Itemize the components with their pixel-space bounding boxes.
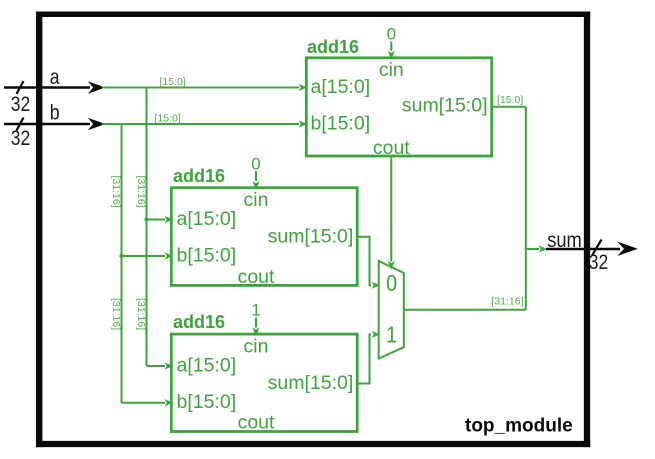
adder U3 add16 (high half, cin=1) box	[171, 334, 357, 431]
svg-text:cin: cin	[244, 335, 269, 357]
wire U3.sum to mux input 1	[357, 331, 380, 384]
svg-text:0: 0	[251, 154, 260, 173]
bus-width slash on a	[17, 81, 24, 94]
svg-text:b[15:0]: b[15:0]	[177, 244, 237, 266]
adder U2 add16 (high half, cin=0) box	[171, 188, 357, 286]
svg-text:[15:0]: [15:0]	[155, 113, 181, 125]
mux M1 body	[379, 261, 404, 359]
svg-text:0: 0	[386, 270, 397, 296]
svg-text:32: 32	[11, 127, 31, 150]
svg-text:cin: cin	[379, 59, 404, 81]
svg-text:[31:16]: [31:16]	[135, 298, 147, 330]
svg-text:32: 32	[11, 93, 31, 116]
svg-text:b[15:0]: b[15:0]	[177, 391, 237, 413]
svg-text:[31:16]: [31:16]	[110, 298, 122, 330]
input port b wire	[4, 118, 105, 131]
svg-text:cout: cout	[373, 137, 410, 159]
wire const 0 to U1.cin	[388, 42, 395, 60]
wire U1.cout to mux select	[388, 156, 395, 270]
svg-text:[15:0]: [15:0]	[497, 94, 523, 106]
svg-text:sum[15:0]: sum[15:0]	[402, 94, 488, 116]
output port sum wire	[546, 242, 638, 256]
svg-text:b[15:0]: b[15:0]	[311, 112, 371, 134]
svg-text:[31:16]: [31:16]	[491, 295, 523, 307]
bus-width slash on sum	[592, 240, 602, 256]
wire net a to U3.a	[147, 362, 174, 369]
junction on net b at U2.b tap	[119, 254, 123, 258]
svg-text:[31:16]: [31:16]	[110, 176, 122, 208]
svg-text:a[15:0]: a[15:0]	[311, 76, 371, 98]
svg-text:add16: add16	[173, 312, 225, 332]
wire net a to U1.a	[102, 84, 307, 91]
svg-text:1: 1	[386, 321, 397, 347]
svg-text:add16: add16	[307, 37, 359, 57]
svg-text:add16: add16	[173, 166, 225, 186]
wire const 0 to U2.cin	[252, 171, 259, 190]
svg-text:[15:0]: [15:0]	[160, 76, 186, 88]
junction on net a at U2.a tap	[144, 217, 148, 221]
svg-text:cout: cout	[238, 412, 275, 434]
svg-text:cin: cin	[244, 189, 269, 211]
wire net b to U1.b	[102, 120, 307, 127]
wire sum bus join vertical	[525, 107, 527, 310]
svg-text:sum[15:0]: sum[15:0]	[268, 372, 354, 394]
bus-width slash on b	[17, 118, 24, 131]
wire net b to U3.b	[122, 399, 174, 406]
wire U2.sum to mux input 0	[357, 237, 380, 289]
svg-text:a: a	[50, 66, 60, 89]
wire net a[31:16] vertical	[146, 88, 148, 367]
wire net a to U2.a	[147, 216, 174, 223]
svg-text:1: 1	[251, 300, 260, 319]
wire sum tee to output port	[525, 245, 547, 252]
wire net b to U2.b	[122, 252, 174, 259]
svg-text:[31:16]: [31:16]	[135, 176, 147, 208]
svg-text:a[15:0]: a[15:0]	[177, 354, 237, 376]
svg-text:a[15:0]: a[15:0]	[177, 208, 237, 230]
svg-text:top_module: top_module	[465, 416, 573, 437]
wire U1.sum to output join	[492, 106, 526, 108]
svg-text:b: b	[50, 102, 60, 125]
svg-text:32: 32	[589, 251, 609, 274]
input port a wire	[4, 81, 105, 94]
wire const 1 to U3.cin	[252, 318, 259, 337]
svg-text:sum: sum	[547, 229, 582, 252]
adder U1 add16 (low half) box	[306, 58, 491, 156]
wire M1 output sum[31:16]	[404, 309, 526, 311]
wire net b[31:16] vertical	[121, 124, 123, 403]
svg-text:sum[15:0]: sum[15:0]	[268, 225, 354, 247]
svg-text:0: 0	[387, 25, 396, 44]
svg-text:cout: cout	[238, 266, 275, 288]
